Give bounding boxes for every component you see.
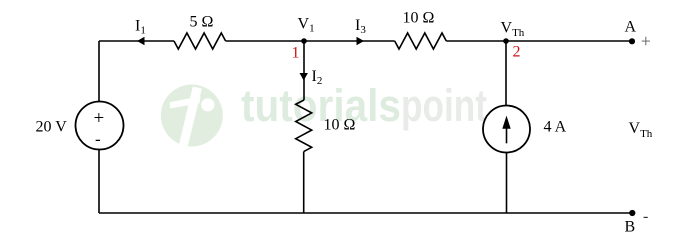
current source arrow up [506, 122, 508, 143]
terminal A dot [629, 38, 635, 44]
svg-text:A: A [625, 19, 637, 36]
wire right branch upper [505, 41, 507, 106]
svg-text:I3: I3 [355, 17, 366, 36]
svg-text:B: B [625, 219, 636, 236]
svg-text:20 V: 20 V [36, 119, 68, 136]
wire top rail left segment [99, 40, 174, 42]
node 2 junction dot [503, 38, 509, 44]
svg-text:V1: V1 [298, 16, 315, 35]
svg-text:2: 2 [513, 44, 521, 61]
svg-text:+: + [94, 108, 105, 129]
svg-text:-: - [95, 129, 101, 148]
svg-text:5 Ω: 5 Ω [190, 13, 214, 30]
current source 4A circle [483, 106, 530, 153]
arrow I1 pointing left [137, 37, 145, 45]
terminal B dot [629, 210, 635, 216]
resistor R 10 ohm top [395, 33, 447, 49]
wire left vertical upper [98, 41, 100, 102]
node 1 junction dot [301, 38, 307, 44]
resistor R 10 ohm vertical [296, 100, 312, 152]
wire top rail middle segment [226, 40, 395, 42]
resistor R 5 ohm [174, 33, 226, 49]
svg-text:I1: I1 [135, 18, 146, 37]
arrow I3 pointing right [357, 37, 365, 45]
svg-text:+: + [641, 31, 651, 51]
svg-text:10 Ω: 10 Ω [324, 117, 356, 134]
svg-text:VTh: VTh [629, 120, 653, 140]
svg-text:4 A: 4 A [544, 119, 567, 136]
arrow I2 pointing down [300, 73, 308, 81]
wire middle branch upper [303, 41, 305, 100]
svg-text:1: 1 [292, 45, 300, 62]
wire bottom rail [99, 212, 632, 214]
svg-text:tutorials: tutorials [241, 80, 401, 131]
svg-text:I2: I2 [312, 68, 323, 87]
tutorialspoint watermark logo circle [161, 85, 223, 153]
svg-text:10 Ω: 10 Ω [403, 10, 435, 27]
svg-text:point: point [401, 80, 487, 131]
wire top rail right segment [446, 40, 632, 42]
svg-text:-: - [643, 208, 648, 225]
voltage source V1 20V circle [76, 102, 124, 150]
svg-text:VTh: VTh [501, 20, 525, 40]
wire middle branch lower [303, 152, 305, 213]
wire left vertical lower [98, 149, 100, 213]
wire right branch lower [506, 153, 508, 214]
